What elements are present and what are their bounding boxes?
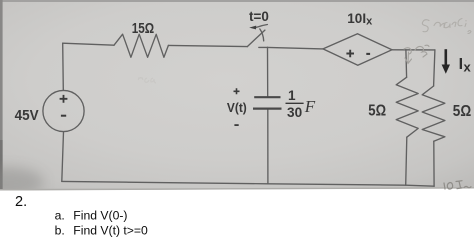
switch opening arrow tail: [256, 25, 267, 28]
wire top segment A (corner to 15-ohm resistor): [63, 43, 114, 45]
wire left vertical bottom (source to bottom-left corner): [62, 132, 64, 182]
pencil handwriting "Same Ci" top right: [422, 19, 471, 34]
svg-text:2.: 2.: [15, 194, 27, 210]
switch opening arrowhead: [249, 26, 256, 30]
wire capacitor branch upper: [267, 47, 269, 96]
dependent source U1 diamond 10Ix: [323, 34, 392, 65]
svg-text:b.: b.: [55, 224, 65, 238]
svg-text:5Ω: 5Ω: [368, 102, 386, 119]
wire below left 5-ohm: [406, 137, 407, 185]
wire top segment B (resistor to switch): [168, 45, 247, 46]
wire top segment C (switch contact to capacitor node): [259, 46, 268, 48]
dependent source minus sign: [366, 53, 370, 55]
svg-text:F: F: [304, 97, 316, 116]
wire right corner down to right 5-ohm: [434, 50, 435, 86]
resistor R3 5ohm right zigzag: [422, 86, 445, 141]
wire left vertical top (source to top-left corner): [62, 43, 65, 90]
switch X mark crossing stroke: [260, 29, 264, 41]
pencil handwriting "10I~" bottom right: [444, 181, 471, 189]
wire below right 5-ohm: [433, 141, 435, 186]
wire top segment D (capacitor node to diamond): [268, 47, 323, 49]
wire capacitor branch lower: [267, 109, 269, 184]
pencil faint scribble middle left: [138, 78, 156, 84]
resistor R1 15ohm zigzag: [114, 34, 168, 57]
voltage source plus sign: [60, 95, 68, 103]
voltage source V1 circle 45V: [43, 90, 84, 131]
svg-text:30: 30: [287, 105, 302, 120]
label fraction bar: [286, 102, 304, 104]
svg-text:Find V(t) t>=0: Find V(t) t>=0: [73, 224, 148, 238]
svg-text:Ix: Ix: [459, 56, 472, 74]
svg-text:1: 1: [288, 88, 296, 103]
svg-text:t=0: t=0: [249, 8, 269, 24]
dependent source plus sign: [346, 50, 354, 57]
voltage source minus sign: [61, 115, 66, 117]
switch S1 blade (open, t=0): [247, 30, 265, 46]
resistor R2 5ohm left zigzag: [396, 77, 418, 137]
svg-text:45V: 45V: [15, 107, 39, 124]
wire bottom rail: [62, 181, 434, 186]
wire branch to left 5-ohm resistor: [405, 50, 408, 77]
capacitor C1 upper plate: [254, 96, 280, 98]
svg-text:15Ω: 15Ω: [132, 21, 155, 37]
wire top segment E (diamond to right corner): [392, 49, 435, 51]
pencil arrow annotation near left 5-ohm: [404, 45, 429, 63]
current arrow Ix: [442, 49, 450, 74]
svg-text:V(t): V(t): [227, 101, 247, 115]
capacitor minus sign: [234, 124, 238, 126]
capacitor C1 lower plate: [253, 107, 282, 109]
svg-text:Find V(0-): Find V(0-): [73, 209, 127, 223]
svg-text:5Ω: 5Ω: [453, 103, 471, 120]
capacitor plus sign: [234, 88, 240, 94]
svg-text:a.: a.: [55, 209, 65, 223]
